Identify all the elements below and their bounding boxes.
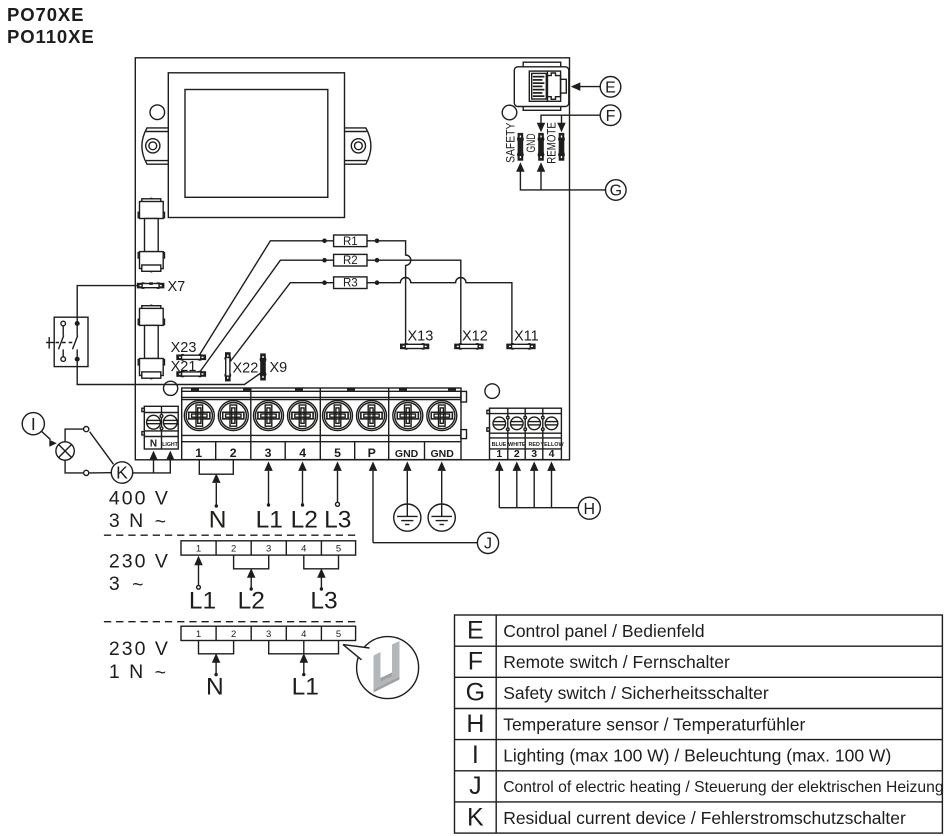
bracket 3-4-5 wire L1 bbox=[269, 641, 339, 677]
svg-text:5: 5 bbox=[334, 446, 341, 460]
transformer unit inner bbox=[185, 90, 328, 198]
callout G bbox=[606, 180, 627, 201]
wire R1 to X13 (hop over R2) bbox=[377, 241, 411, 344]
svg-text:X7: X7 bbox=[168, 279, 186, 295]
resistor R2 bbox=[322, 254, 379, 267]
svg-text:3: 3 bbox=[531, 448, 537, 460]
connector GND pin bbox=[538, 134, 545, 160]
svg-text:3 ~: 3 ~ bbox=[109, 573, 146, 596]
connector X9 bbox=[260, 354, 267, 380]
svg-text:N: N bbox=[209, 506, 227, 533]
svg-text:3: 3 bbox=[266, 629, 271, 640]
svg-text:YELLOW: YELLOW bbox=[540, 442, 564, 448]
N bracket (400V) bbox=[199, 460, 233, 508]
wire L3 (400V) bbox=[333, 461, 342, 506]
svg-text:3 N ~: 3 N ~ bbox=[109, 510, 168, 533]
svg-text:F: F bbox=[606, 108, 616, 125]
mounting hole below connector bbox=[502, 105, 517, 120]
wire R3 to X11 (hops) bbox=[377, 278, 512, 345]
svg-text:K: K bbox=[116, 463, 128, 483]
svg-text:L2: L2 bbox=[238, 588, 265, 615]
transformer unit outer bbox=[168, 73, 344, 218]
svg-text:X11: X11 bbox=[514, 329, 539, 345]
bracket 2-3 wire L2 bbox=[234, 555, 269, 591]
svg-text:X22: X22 bbox=[233, 361, 259, 377]
svg-text:1: 1 bbox=[196, 629, 201, 640]
wire L2 (400V) bbox=[298, 461, 307, 506]
switch contact bottom bbox=[84, 470, 89, 475]
svg-text:H: H bbox=[584, 501, 596, 518]
callout G wire bbox=[516, 162, 605, 190]
svg-text:E: E bbox=[467, 616, 484, 644]
svg-text:N: N bbox=[150, 439, 157, 450]
svg-text:4: 4 bbox=[301, 544, 306, 555]
mounting hole right bbox=[485, 384, 500, 399]
svg-text:X23: X23 bbox=[171, 340, 197, 356]
bracket 1-2 wire N bbox=[199, 641, 234, 677]
callout J bbox=[477, 532, 498, 553]
svg-text:2: 2 bbox=[231, 544, 236, 555]
svg-text:Lighting (max 100 W) / Beleuch: Lighting (max 100 W) / Beleuchtung (max.… bbox=[503, 746, 891, 766]
svg-text:BLUE: BLUE bbox=[492, 442, 507, 448]
svg-text:K: K bbox=[467, 803, 484, 831]
callout F bbox=[600, 105, 621, 126]
callout E arrow bbox=[571, 82, 600, 91]
svg-text:L1: L1 bbox=[292, 674, 319, 701]
svg-text:WHITE: WHITE bbox=[508, 442, 526, 448]
callout H wires bbox=[495, 461, 578, 507]
svg-text:4: 4 bbox=[549, 448, 555, 460]
terminal strip 230V 3-phase bbox=[181, 541, 356, 555]
svg-text:SAFETY: SAFETY bbox=[503, 123, 517, 163]
svg-text:230 V: 230 V bbox=[109, 638, 170, 660]
mounting hole above terminals bbox=[164, 381, 178, 395]
terminal screw 2 bbox=[218, 401, 248, 431]
svg-text:230 V: 230 V bbox=[109, 550, 170, 572]
svg-text:5: 5 bbox=[336, 544, 341, 555]
svg-text:2: 2 bbox=[231, 629, 236, 640]
svg-text:1: 1 bbox=[196, 544, 201, 555]
callout F wire bbox=[537, 115, 600, 132]
svg-text:J: J bbox=[484, 536, 492, 553]
protective earth symbol bbox=[394, 461, 421, 531]
connector X13 bbox=[401, 343, 429, 350]
svg-text:G: G bbox=[466, 679, 485, 707]
svg-text:Control panel / Bedienfeld: Control panel / Bedienfeld bbox=[503, 621, 704, 641]
connector REMOTE pin bbox=[558, 134, 565, 160]
svg-text:1: 1 bbox=[195, 446, 202, 460]
resistor R3 bbox=[322, 277, 379, 290]
resistor R1 bbox=[322, 235, 379, 248]
connector SAFETY pin bbox=[517, 134, 524, 160]
terminal screw 6 bbox=[357, 401, 387, 431]
circuit board outline bbox=[135, 58, 569, 460]
callout J wire (P terminal) bbox=[369, 461, 477, 542]
svg-text:Safety switch / Sicherheitssch: Safety switch / Sicherheitsschalter bbox=[503, 683, 769, 703]
svg-text:2: 2 bbox=[514, 448, 520, 460]
svg-text:4: 4 bbox=[299, 446, 306, 460]
svg-text:Residual current device / Fehl: Residual current device / Fehlerstromsch… bbox=[503, 808, 906, 828]
svg-text:I: I bbox=[472, 741, 479, 769]
svg-text:1: 1 bbox=[496, 448, 502, 460]
svg-text:R3: R3 bbox=[343, 278, 358, 290]
switch contact top bbox=[84, 427, 89, 432]
terminal strip 230V 1N bbox=[181, 626, 356, 640]
svg-text:Remote switch / Fernschalter: Remote switch / Fernschalter bbox=[503, 652, 730, 672]
connector X23 bbox=[177, 354, 205, 361]
svg-text:E: E bbox=[605, 79, 616, 96]
dashed separator 2 bbox=[104, 621, 358, 623]
terminal numbers row bbox=[195, 446, 454, 460]
svg-text:Control of electric heating /: Control of electric heating / Steuerung … bbox=[503, 779, 943, 796]
callout K bbox=[111, 462, 132, 483]
wire R3 to X22 bbox=[230, 283, 324, 362]
fuse F2 bbox=[138, 305, 164, 380]
callout I bbox=[22, 413, 44, 435]
svg-text:GND: GND bbox=[395, 448, 419, 460]
temperature sensor terminal block bbox=[487, 408, 565, 460]
callout E bbox=[600, 77, 621, 98]
bracket 4-5 wire L3 bbox=[304, 555, 339, 591]
right mounting ear bbox=[345, 128, 371, 164]
wire L1 (400V) bbox=[264, 461, 273, 506]
U logo bbox=[374, 641, 400, 693]
svg-text:R2: R2 bbox=[343, 255, 358, 267]
svg-text:LIGHT: LIGHT bbox=[162, 442, 178, 448]
svg-text:X9: X9 bbox=[270, 360, 288, 376]
svg-text:REMOTE: REMOTE bbox=[544, 122, 558, 164]
svg-text:L3: L3 bbox=[310, 588, 337, 615]
mounting hole top-left bbox=[150, 105, 165, 120]
arrow I to lamp bbox=[41, 431, 57, 447]
svg-text:RED: RED bbox=[529, 442, 540, 448]
wire L1 (230V3) bbox=[194, 556, 203, 589]
svg-text:4: 4 bbox=[301, 629, 306, 640]
control panel connector (RJ socket) bbox=[514, 62, 569, 110]
lamp (lighting) bbox=[56, 442, 74, 460]
terminal screw 8 bbox=[427, 401, 457, 431]
fuse F1 bbox=[138, 198, 164, 273]
svg-text:L1: L1 bbox=[189, 588, 216, 615]
svg-text:X12: X12 bbox=[462, 329, 488, 345]
wire lamp bottom bbox=[65, 460, 83, 473]
svg-text:Temperature sensor / Temperatu: Temperature sensor / Temperaturfühler bbox=[503, 714, 805, 734]
svg-text:F: F bbox=[468, 648, 483, 676]
wire K to N/LIGHT terminals bbox=[133, 451, 175, 473]
connector X12 bbox=[455, 343, 483, 350]
svg-text:H: H bbox=[466, 710, 484, 738]
svg-text:2: 2 bbox=[230, 446, 237, 460]
wire to K bbox=[89, 472, 111, 474]
safety switch box bbox=[46, 317, 88, 366]
svg-text:L3: L3 bbox=[324, 506, 351, 533]
left mounting ear bbox=[142, 128, 168, 164]
connector X21 bbox=[177, 371, 205, 378]
svg-text:R1: R1 bbox=[343, 236, 358, 248]
svg-text:J: J bbox=[469, 772, 482, 800]
wire X7 to switch bbox=[77, 286, 137, 322]
svg-text:400 V: 400 V bbox=[109, 487, 170, 509]
wire R2 to X21 bbox=[200, 260, 325, 371]
svg-text:1 N ~: 1 N ~ bbox=[109, 661, 168, 684]
svg-text:X13: X13 bbox=[408, 329, 434, 345]
protective earth symbol bbox=[428, 461, 455, 531]
main terminal block bbox=[182, 388, 467, 460]
connector X7 bbox=[138, 282, 164, 289]
wire R2 to X12 bbox=[377, 260, 461, 344]
dashed separator 1 bbox=[104, 534, 358, 536]
terminal screw 5 bbox=[323, 401, 353, 431]
svg-text:X21: X21 bbox=[171, 359, 197, 375]
svg-text:P: P bbox=[368, 446, 376, 460]
svg-text:3: 3 bbox=[265, 446, 272, 460]
svg-text:I: I bbox=[31, 414, 36, 434]
terminal screw 7 bbox=[393, 401, 423, 431]
lighting terminal block N/LIGHT bbox=[142, 406, 179, 449]
callout H bbox=[578, 497, 600, 519]
svg-text:3: 3 bbox=[266, 544, 271, 555]
svg-text:L1: L1 bbox=[256, 506, 283, 533]
svg-text:L2: L2 bbox=[291, 506, 318, 533]
svg-text:PO110XE: PO110XE bbox=[7, 26, 95, 47]
svg-text:GND: GND bbox=[431, 448, 455, 460]
svg-text:PO70XE: PO70XE bbox=[7, 4, 84, 25]
wire lamp top to switch contact bbox=[65, 429, 83, 442]
switch blade to K bbox=[90, 432, 114, 465]
terminal screw 4 bbox=[288, 401, 318, 431]
svg-text:N: N bbox=[206, 674, 224, 701]
connector X22 bbox=[224, 353, 231, 381]
note bubble bbox=[343, 637, 419, 699]
svg-text:5: 5 bbox=[336, 629, 341, 640]
connector X11 bbox=[507, 343, 535, 350]
svg-text:GND: GND bbox=[524, 133, 538, 152]
terminal screw 3 bbox=[254, 401, 284, 431]
wire switch to board (to X9) bbox=[77, 361, 262, 384]
wire R1 to X23 bbox=[200, 241, 325, 355]
legend table bbox=[455, 615, 944, 833]
svg-text:G: G bbox=[610, 183, 622, 200]
terminal screw 1 bbox=[184, 401, 214, 431]
